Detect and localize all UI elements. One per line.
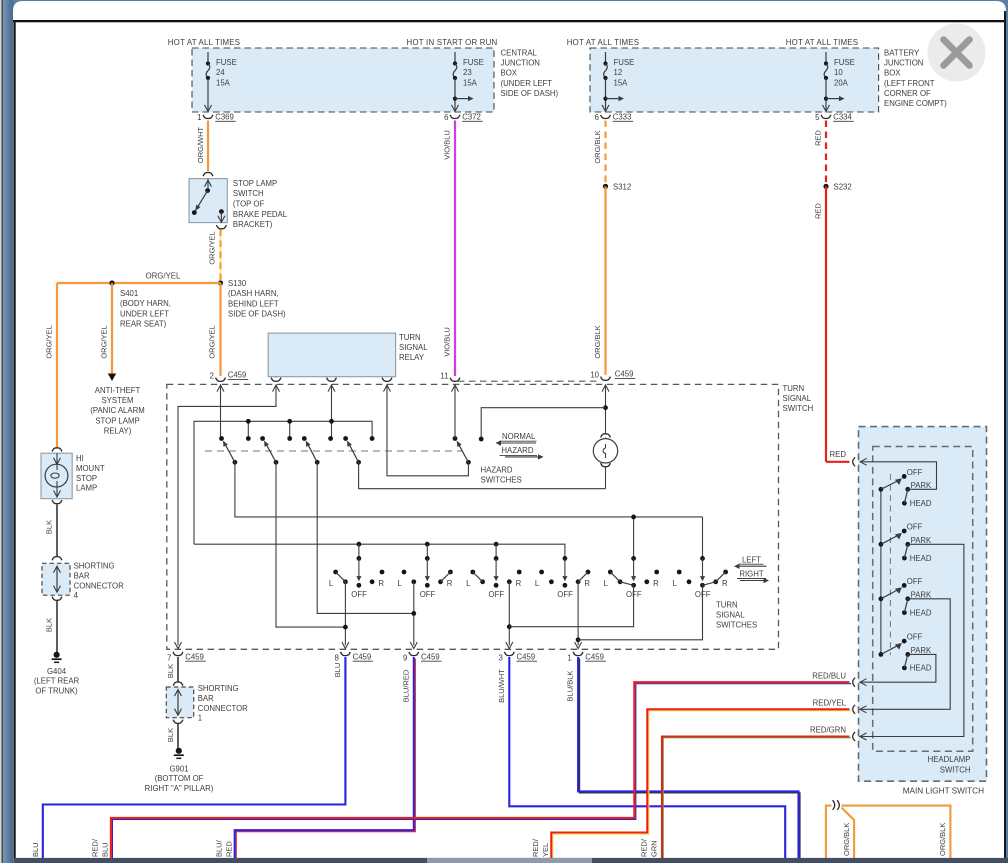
svg-text:R: R bbox=[447, 579, 453, 588]
left window strip bbox=[0, 0, 2, 863]
entry arrow relay pin c bbox=[386, 384, 388, 393]
wire switch6 off to pin 1 junction bbox=[578, 585, 702, 640]
svg-text:LAMP: LAMP bbox=[76, 484, 97, 493]
turn signal switch 1 bbox=[357, 542, 362, 547]
exit arrow pin 8 bbox=[342, 642, 349, 649]
svg-text:HEAD: HEAD bbox=[910, 608, 932, 617]
svg-text:NORMAL: NORMAL bbox=[502, 432, 536, 441]
svg-text:R: R bbox=[516, 579, 522, 588]
svg-text:OFF: OFF bbox=[420, 590, 436, 599]
headlamp switch box bbox=[873, 447, 973, 752]
svg-text:BLU: BLU bbox=[333, 663, 342, 678]
wire hazard switch 3 down bbox=[317, 462, 414, 613]
svg-text:C459: C459 bbox=[228, 371, 247, 380]
wire ORG/BLK C333 to S312 (fusible link style dashed) bbox=[604, 121, 606, 187]
splice S312 bbox=[603, 184, 608, 189]
wire BLU pin 8 bbox=[43, 657, 346, 860]
wire relay pin b to hazard bus bbox=[331, 393, 333, 439]
connector C372 pin 6 bbox=[450, 115, 460, 119]
svg-text:TURN: TURN bbox=[716, 601, 738, 610]
svg-text:ORG/YEL: ORG/YEL bbox=[146, 272, 181, 281]
main light switch box bbox=[859, 427, 987, 782]
svg-text:R: R bbox=[378, 579, 384, 588]
shorting bar connector 4 bbox=[42, 563, 70, 595]
svg-text:L: L bbox=[535, 579, 540, 588]
svg-text:HEAD: HEAD bbox=[910, 664, 932, 673]
svg-text:GRN: GRN bbox=[650, 840, 659, 857]
relay pin c connector bbox=[382, 378, 392, 382]
svg-text:(LEFT FRONT: (LEFT FRONT bbox=[884, 79, 935, 88]
connector C459 pin 8 bbox=[341, 652, 351, 656]
hazard flasher selector switch bbox=[453, 436, 458, 441]
svg-text:ENGINE COMPT): ENGINE COMPT) bbox=[884, 99, 947, 108]
svg-text:BLK: BLK bbox=[166, 728, 175, 742]
horizontal scrollbar bbox=[14, 858, 1008, 863]
svg-text:BEHIND LEFT: BEHIND LEFT bbox=[228, 299, 279, 308]
svg-text:RIGHT: RIGHT bbox=[739, 570, 763, 579]
ground G404 bbox=[54, 652, 60, 658]
wire pin2 to hazard switch 1 contact bbox=[220, 393, 222, 439]
wire ORG/YEL S130 horizontal run to S401 bbox=[57, 282, 221, 284]
svg-text:OFF: OFF bbox=[489, 590, 505, 599]
svg-text:L: L bbox=[329, 579, 334, 588]
svg-text:BLK: BLK bbox=[166, 664, 175, 678]
close button bbox=[928, 24, 986, 82]
ground G901 bbox=[176, 748, 182, 754]
rail B stub group6 bbox=[702, 517, 704, 559]
svg-text:C459: C459 bbox=[353, 652, 372, 661]
svg-text:7: 7 bbox=[167, 653, 171, 662]
diagram left border bbox=[13, 22, 15, 863]
svg-text:UNDER LEFT: UNDER LEFT bbox=[120, 309, 169, 318]
entry arrow pin 10 bbox=[605, 384, 607, 393]
connector at main light switch RED input bbox=[853, 457, 855, 466]
svg-text:MAIN LIGHT SWITCH: MAIN LIGHT SWITCH bbox=[903, 787, 984, 796]
svg-text:FUSE: FUSE bbox=[614, 58, 635, 67]
connector at stop lamp switch bbox=[203, 173, 213, 177]
fuse 23 15A bbox=[454, 52, 456, 63]
svg-text:5: 5 bbox=[815, 113, 820, 122]
wire RED/GRN to bottom bbox=[662, 737, 851, 862]
svg-text:SWITCHES: SWITCHES bbox=[716, 621, 757, 630]
svg-text:R: R bbox=[584, 579, 590, 588]
hazard switch 4 bbox=[343, 436, 348, 441]
svg-text:C459: C459 bbox=[185, 652, 204, 661]
svg-text:(BOTTOM OF: (BOTTOM OF bbox=[155, 774, 204, 783]
svg-text:10: 10 bbox=[834, 68, 843, 77]
svg-text:C369: C369 bbox=[215, 112, 234, 121]
svg-text:BLU/RED: BLU/RED bbox=[401, 669, 410, 702]
svg-text:ORG/BLK: ORG/BLK bbox=[842, 823, 851, 856]
entry arrow pin 11 bbox=[454, 384, 456, 393]
svg-text:RED/GRN: RED/GRN bbox=[810, 726, 846, 735]
exit arrow pin 1 bbox=[575, 642, 582, 649]
wire RED C334 to S232 dashed bbox=[825, 121, 827, 187]
svg-text:MOUNT: MOUNT bbox=[76, 464, 105, 473]
svg-text:2: 2 bbox=[210, 371, 214, 380]
svg-text:L: L bbox=[466, 579, 471, 588]
svg-text:(BODY HARN,: (BODY HARN, bbox=[120, 299, 171, 308]
wire BLK pin 7 to shorting bar connector bbox=[177, 657, 179, 682]
connector C333 pin 6 bbox=[601, 115, 611, 119]
connector C459 pin 10 bbox=[601, 377, 611, 381]
wire ORG/YEL stop lamp switch to S130 bbox=[220, 230, 222, 284]
exit arrow pin 7 bbox=[175, 642, 182, 649]
svg-text:PARK: PARK bbox=[911, 646, 932, 655]
svg-text:STOP LAMP: STOP LAMP bbox=[233, 179, 277, 188]
battery junction box bbox=[590, 48, 879, 112]
svg-text:RED/YEL: RED/YEL bbox=[813, 698, 847, 707]
svg-text:SIGNAL: SIGNAL bbox=[399, 343, 428, 352]
svg-text:REAR SEAT): REAR SEAT) bbox=[120, 320, 167, 329]
svg-text:HOT AT ALL TIMES: HOT AT ALL TIMES bbox=[567, 38, 640, 47]
svg-text:G901: G901 bbox=[169, 765, 188, 774]
svg-text:OF TRUNK): OF TRUNK) bbox=[35, 686, 78, 695]
central junction box bbox=[192, 48, 494, 112]
svg-text:R: R bbox=[722, 579, 728, 588]
svg-text:JUNCTION: JUNCTION bbox=[884, 59, 923, 68]
wire switch5 off to pin 3 junction bbox=[509, 585, 633, 626]
connector C459 pin 1 bbox=[573, 652, 583, 656]
svg-text:STOP: STOP bbox=[76, 474, 97, 483]
wire RED/YEL to bottom bbox=[551, 709, 851, 861]
header divider line bbox=[13, 20, 1006, 22]
svg-text:ORG/YEL: ORG/YEL bbox=[45, 325, 54, 358]
svg-text:CENTRAL: CENTRAL bbox=[501, 49, 538, 58]
connector above shorting bar 1 bbox=[173, 682, 183, 686]
svg-text:OFF: OFF bbox=[557, 590, 573, 599]
headlamp switch section 1 bbox=[879, 487, 884, 492]
svg-text:BLU: BLU bbox=[31, 842, 40, 857]
svg-text:TURN: TURN bbox=[399, 333, 421, 342]
fuse 12 15A bbox=[605, 52, 607, 63]
svg-text:HAZARD: HAZARD bbox=[481, 466, 513, 475]
svg-text:C459: C459 bbox=[517, 652, 536, 661]
connector below shorting bar 4 bbox=[52, 597, 62, 601]
svg-text:HOT IN START OR RUN: HOT IN START OR RUN bbox=[407, 38, 498, 47]
wire pin10 tee to flasher feed bbox=[605, 393, 607, 434]
svg-text:S401: S401 bbox=[120, 289, 138, 298]
svg-text:24: 24 bbox=[216, 68, 225, 77]
wire RED input to PARK 1 bbox=[861, 462, 937, 490]
svg-text:R: R bbox=[653, 579, 659, 588]
turn signal switch 3 bbox=[494, 542, 499, 547]
turn signal switch 5 bbox=[631, 556, 636, 561]
svg-text:RELAY): RELAY) bbox=[104, 426, 132, 435]
wire ORG/BLK branch diagonal bbox=[842, 808, 855, 861]
svg-text:C334: C334 bbox=[833, 112, 852, 121]
svg-text:SWITCH: SWITCH bbox=[940, 765, 971, 774]
svg-text:9: 9 bbox=[403, 653, 407, 662]
svg-text:FUSE: FUSE bbox=[216, 58, 237, 67]
diagram right border bbox=[1004, 11, 1006, 863]
svg-text:C459: C459 bbox=[585, 652, 604, 661]
svg-text:OFF: OFF bbox=[907, 577, 923, 586]
connector C459 pin 11 bbox=[450, 378, 460, 382]
hazard switch 1 bbox=[219, 436, 224, 441]
svg-text:ORG/BLK: ORG/BLK bbox=[593, 130, 602, 163]
svg-text:PARK: PARK bbox=[911, 591, 932, 600]
svg-text:15A: 15A bbox=[463, 78, 478, 87]
svg-text:BLK: BLK bbox=[45, 520, 54, 534]
connector C334 pin 5 bbox=[821, 115, 831, 119]
wire ORG/YEL S401 to anti-theft system bbox=[111, 283, 113, 374]
svg-text:STOP LAMP: STOP LAMP bbox=[95, 416, 139, 425]
svg-text:OFF: OFF bbox=[907, 523, 923, 532]
turn signal switch assembly box bbox=[167, 384, 779, 649]
svg-text:SIGNAL: SIGNAL bbox=[783, 394, 812, 403]
relay pin a connector bbox=[275, 376, 277, 379]
svg-text:RIGHT "A" PILLAR): RIGHT "A" PILLAR) bbox=[145, 784, 214, 793]
wire BLU/BLK pin 1 bbox=[578, 657, 800, 862]
svg-text:12: 12 bbox=[614, 68, 623, 77]
svg-text:ORG/WHT: ORG/WHT bbox=[196, 126, 205, 163]
svg-text:S312: S312 bbox=[613, 183, 631, 192]
svg-text:BRACKET): BRACKET) bbox=[233, 220, 273, 229]
svg-text:RED/: RED/ bbox=[91, 838, 100, 857]
rail B stub group5 bbox=[633, 517, 635, 559]
svg-text:BLU/BLK: BLU/BLK bbox=[566, 671, 575, 702]
splice S130 bbox=[218, 280, 223, 285]
wire switch2 L to pin 9 bbox=[413, 582, 415, 646]
exit arrow pin 9 bbox=[410, 642, 417, 649]
svg-text:20A: 20A bbox=[834, 78, 849, 87]
svg-text:HOT AT ALL TIMES: HOT AT ALL TIMES bbox=[168, 38, 241, 47]
svg-text:(DASH HARN,: (DASH HARN, bbox=[228, 289, 279, 298]
svg-text:S130: S130 bbox=[228, 279, 247, 288]
svg-text:4: 4 bbox=[74, 591, 79, 600]
connector RED/GRN at main light switch bbox=[853, 732, 855, 741]
svg-text:1: 1 bbox=[567, 653, 571, 662]
svg-text:PARK: PARK bbox=[911, 536, 932, 545]
svg-text:RED/: RED/ bbox=[640, 838, 649, 857]
wire ORG/BLK riser bbox=[826, 806, 832, 860]
connector above shorting bar 4 bbox=[52, 557, 62, 561]
svg-text:BOX: BOX bbox=[501, 69, 518, 78]
svg-text:C459: C459 bbox=[615, 370, 634, 379]
svg-text:S232: S232 bbox=[834, 183, 852, 192]
svg-text:FUSE: FUSE bbox=[834, 58, 855, 67]
wire hazard switch 1 to turn signal rail B bbox=[235, 462, 703, 517]
svg-text:ORG/YEL: ORG/YEL bbox=[100, 325, 109, 358]
svg-text:3: 3 bbox=[498, 653, 502, 662]
relay pin b connector bbox=[327, 378, 337, 382]
svg-text:SIDE OF DASH): SIDE OF DASH) bbox=[501, 89, 559, 98]
wire switch1 L to pin 8 bbox=[344, 582, 346, 646]
svg-text:OFF: OFF bbox=[351, 590, 367, 599]
svg-text:JUNCTION: JUNCTION bbox=[501, 59, 540, 68]
svg-text:HOT AT ALL TIMES: HOT AT ALL TIMES bbox=[786, 38, 859, 47]
connector below shorting bar 1 bbox=[173, 720, 183, 724]
svg-text:8: 8 bbox=[335, 653, 339, 662]
svg-text:ORG/BLK: ORG/BLK bbox=[593, 325, 602, 358]
wire ORG/BLK S312 to C459 pin 10 bbox=[604, 186, 606, 375]
svg-text:G404: G404 bbox=[47, 667, 67, 676]
svg-text:CORNER OF: CORNER OF bbox=[884, 89, 931, 98]
turn signal switch 4 bbox=[563, 556, 568, 561]
svg-text:15A: 15A bbox=[614, 78, 629, 87]
svg-text:(LEFT REAR: (LEFT REAR bbox=[34, 677, 80, 686]
wire hazard switch 4 to lamp bbox=[359, 462, 606, 488]
connector RED/BLU at main light switch bbox=[853, 678, 855, 687]
svg-text:HEADLAMP: HEADLAMP bbox=[928, 755, 971, 764]
turn signal switch 6 bbox=[700, 556, 705, 561]
svg-text:ANTI-THEFT: ANTI-THEFT bbox=[95, 386, 141, 395]
svg-text:HAZARD: HAZARD bbox=[501, 446, 533, 455]
connector C459 pin 2 bbox=[216, 378, 226, 382]
connector below stop lamp switch bbox=[217, 225, 227, 229]
wire hazard switch 2 down bbox=[276, 462, 346, 627]
svg-text:1: 1 bbox=[198, 714, 202, 723]
svg-text:RED: RED bbox=[814, 130, 823, 146]
turn signal switch 2 bbox=[425, 542, 430, 547]
svg-text:BRAKE PEDAL: BRAKE PEDAL bbox=[233, 210, 288, 219]
svg-text:BLU: BLU bbox=[101, 842, 110, 857]
svg-text:RELAY: RELAY bbox=[399, 353, 425, 362]
connector C369 pin 1 bbox=[203, 115, 213, 119]
svg-text:HEAD: HEAD bbox=[910, 554, 932, 563]
svg-text:SWITCH: SWITCH bbox=[233, 189, 264, 198]
wire pin11 to selector contact bbox=[454, 393, 456, 439]
svg-text:L: L bbox=[673, 579, 678, 588]
wire RED/BLU to bottom bbox=[111, 682, 851, 861]
connector ORG/BLK inline bbox=[833, 800, 835, 810]
svg-text:HEAD: HEAD bbox=[910, 499, 932, 508]
wire ORG/BLK branch to right bbox=[842, 806, 951, 860]
svg-text:BLU/WHT: BLU/WHT bbox=[497, 669, 506, 703]
hazard indicator lamp bbox=[601, 434, 611, 438]
svg-text:10: 10 bbox=[590, 370, 599, 379]
wire relay pin c to selector switch bbox=[387, 393, 468, 476]
svg-text:ORG/YEL: ORG/YEL bbox=[208, 231, 217, 264]
wire RED S232 to main light switch bbox=[825, 186, 827, 461]
svg-text:VIO/BLU: VIO/BLU bbox=[443, 327, 452, 357]
svg-text:L: L bbox=[397, 579, 402, 588]
wire ORG/YEL to hi mount stop lamp bbox=[56, 283, 58, 447]
connector C459 pin 7 bbox=[173, 652, 183, 656]
svg-text:BATTERY: BATTERY bbox=[884, 49, 920, 58]
wire BLK lamp to shorting bar 4 bbox=[56, 505, 58, 557]
svg-text:SIGNAL: SIGNAL bbox=[716, 611, 745, 620]
wire PARK 4 to RED/BLU output bbox=[860, 654, 936, 682]
svg-text:BAR: BAR bbox=[74, 571, 90, 580]
wire PARK 2 to RED/GRN output bbox=[860, 544, 964, 736]
wire PARK 3 to RED/YEL output bbox=[860, 599, 950, 710]
svg-text:SWITCH: SWITCH bbox=[783, 404, 814, 413]
svg-text:TURN: TURN bbox=[783, 384, 805, 393]
wire switch3 R to pin 3 bbox=[508, 582, 510, 646]
headlamp switch linkage dashed line bbox=[889, 474, 891, 655]
svg-text:11: 11 bbox=[440, 371, 448, 380]
shorting bar connector 1 bbox=[166, 687, 193, 718]
svg-text:PARK: PARK bbox=[911, 481, 932, 490]
fuse 24 15A bbox=[207, 52, 209, 63]
entry arrow relay pin b bbox=[331, 384, 333, 393]
svg-text:FUSE: FUSE bbox=[463, 58, 484, 67]
wire VIO/BLU C372 to C459 pin 11 bbox=[454, 121, 456, 377]
connector C459 pin 3 bbox=[504, 652, 514, 656]
exit arrow pin 3 bbox=[506, 642, 513, 649]
hazard switch 2 bbox=[260, 436, 265, 441]
svg-text:BLU/: BLU/ bbox=[214, 839, 223, 857]
svg-text:YEL: YEL bbox=[541, 843, 550, 857]
svg-text:15A: 15A bbox=[216, 78, 231, 87]
svg-text:RED/: RED/ bbox=[531, 838, 540, 857]
svg-text:RED: RED bbox=[830, 450, 847, 459]
hazard bus bbox=[194, 421, 372, 544]
svg-text:L: L bbox=[604, 579, 609, 588]
headlamp switch section 4 bbox=[879, 652, 884, 657]
headlamp switch section 2 bbox=[879, 542, 884, 547]
svg-text:SHORTING: SHORTING bbox=[74, 561, 115, 570]
wire relay pin a to connector C459 pin 7 feed bbox=[178, 393, 276, 645]
svg-text:BLK: BLK bbox=[45, 618, 54, 632]
svg-text:SWITCHES: SWITCHES bbox=[481, 476, 522, 485]
splice S401 bbox=[109, 280, 114, 285]
svg-text:(PANIC ALARM: (PANIC ALARM bbox=[90, 406, 144, 415]
svg-text:SYSTEM: SYSTEM bbox=[101, 396, 133, 405]
svg-text:(TOP OF: (TOP OF bbox=[233, 200, 265, 209]
connector RED/YEL at main light switch bbox=[853, 705, 855, 714]
stop lamp switch bbox=[189, 179, 227, 223]
svg-text:HI: HI bbox=[76, 454, 84, 463]
hazard bus stub 1 bbox=[247, 421, 249, 438]
svg-text:BOX: BOX bbox=[884, 69, 901, 78]
svg-text:RED: RED bbox=[224, 841, 233, 857]
wire switch4 R to pin 1 bbox=[577, 582, 579, 646]
connector below hi mount stop lamp bbox=[52, 500, 62, 504]
svg-text:C372: C372 bbox=[462, 112, 481, 121]
wire BLU/WHT pin 3 bbox=[509, 657, 785, 860]
entry arrow relay pin a bbox=[275, 384, 277, 393]
svg-text:VIO/BLU: VIO/BLU bbox=[443, 130, 452, 160]
svg-text:1: 1 bbox=[197, 113, 201, 122]
splice S232 bbox=[823, 184, 828, 189]
svg-text:C333: C333 bbox=[613, 112, 632, 121]
hi mount stop lamp bbox=[41, 453, 72, 499]
wire ORG/YEL S130 down to C459 pin 2 bbox=[219, 283, 221, 376]
headlamp switch common bar bbox=[880, 489, 882, 654]
svg-text:6: 6 bbox=[595, 113, 599, 122]
svg-text:RED: RED bbox=[814, 203, 823, 219]
svg-text:LEFT: LEFT bbox=[742, 555, 761, 564]
connector C459 pin 9 bbox=[409, 652, 419, 656]
svg-text:23: 23 bbox=[463, 68, 472, 77]
svg-text:SHORTING: SHORTING bbox=[198, 684, 239, 693]
svg-text:RED/BLU: RED/BLU bbox=[812, 671, 846, 680]
svg-text:C459: C459 bbox=[421, 652, 440, 661]
fuse 10 20A bbox=[825, 52, 827, 63]
turn signal rail A bbox=[194, 544, 565, 558]
svg-text:OFF: OFF bbox=[907, 468, 923, 477]
svg-text:ORG/BLK: ORG/BLK bbox=[938, 823, 947, 856]
connector at hi mount stop lamp bbox=[52, 448, 62, 452]
svg-text:CONNECTOR: CONNECTOR bbox=[198, 704, 248, 713]
entry arrow pin 2 bbox=[220, 384, 222, 393]
svg-text:ORG/YEL: ORG/YEL bbox=[208, 325, 217, 358]
hazard linkage dashed line bbox=[205, 450, 462, 452]
wire BLK shorting bar 4 to G404 bbox=[56, 601, 58, 652]
wire BLU/RED pin 9 bbox=[235, 657, 416, 862]
svg-text:BAR: BAR bbox=[198, 694, 214, 703]
headlamp switch section 3 bbox=[879, 596, 884, 601]
turn signal relay bbox=[268, 333, 395, 377]
svg-text:SIDE OF DASH): SIDE OF DASH) bbox=[228, 310, 286, 319]
wire BLK shorting bar to G901 bbox=[177, 724, 179, 748]
wire ORG/WHT C369 to stop lamp switch bbox=[207, 121, 209, 172]
svg-text:CONNECTOR: CONNECTOR bbox=[74, 581, 124, 590]
svg-text:(UNDER LEFT: (UNDER LEFT bbox=[501, 79, 553, 88]
